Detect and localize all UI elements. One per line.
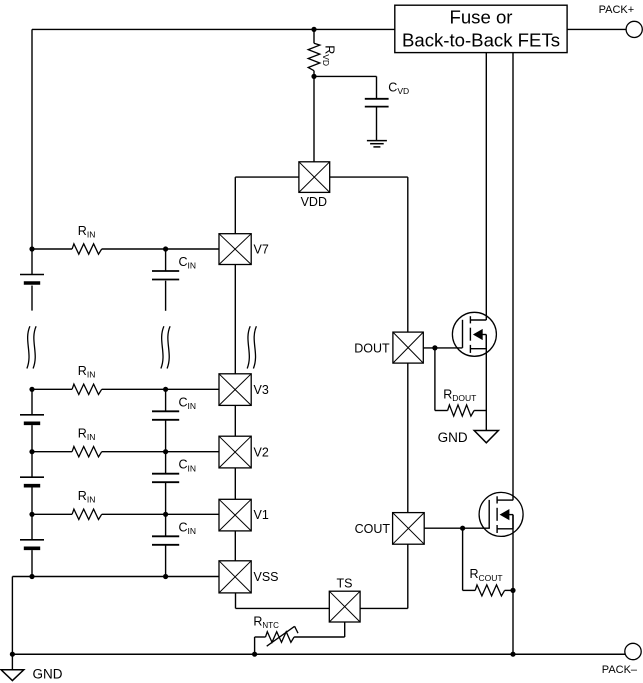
svg-text:V2: V2: [254, 445, 269, 459]
resistor RVD: [308, 29, 320, 76]
thermistor RNTC: [255, 626, 298, 646]
svg-text:DOUT: DOUT: [354, 341, 390, 355]
op-pin V2: [219, 436, 251, 468]
junction: DOUT gate node: [432, 345, 437, 350]
wire: DOUT to Q1 gate: [423, 347, 462, 349]
resistor RIN (V7 row): [32, 244, 219, 254]
transistor Q1 (discharge FET): [452, 312, 496, 356]
capacitor CIN (V7 row): [152, 249, 179, 280]
svg-text:VDD: VDD: [301, 195, 327, 209]
wire: CIN V3 to V2: [165, 420, 167, 452]
wire: RNTC to rail: [254, 637, 256, 654]
resistor RDOUT: [435, 348, 486, 416]
wire: Q2 source to PACK- rail: [512, 515, 514, 655]
ground symbol GND (left): [1, 654, 24, 680]
ground symbol GND (Q1 source): [474, 431, 498, 443]
resistor RIN (V2 row): [32, 447, 219, 457]
break mark: battery bus: [27, 326, 36, 368]
capacitor CVD: [365, 99, 389, 140]
wire: CIN V2 to V1: [165, 482, 167, 514]
break mark: CIN bus: [161, 326, 170, 368]
battery cell (V2): [20, 452, 44, 486]
wire: battery top stub: [31, 286, 33, 311]
op-pin V7: [219, 234, 251, 265]
junction: CIN bus V7: [163, 246, 168, 251]
junction: RCOUT source node: [510, 588, 515, 593]
junction: CIN bus VSS: [163, 574, 168, 579]
battery cell (V1): [20, 514, 44, 548]
junction: battery bus V1: [29, 512, 34, 517]
fuse/FET block: [395, 5, 567, 52]
svg-text:V3: V3: [254, 383, 269, 397]
junction: RVD bottom / CVD node: [311, 74, 316, 79]
svg-text:Fuse or: Fuse or: [449, 7, 512, 28]
svg-text:TS: TS: [337, 577, 353, 591]
op-pin COUT: [393, 513, 425, 545]
wire: fuse block to PACK+ terminal: [567, 28, 626, 30]
battery cell (top): [20, 249, 44, 283]
junction: COUT gate node: [460, 526, 465, 531]
resistor RCOUT: [463, 528, 513, 596]
junction: Q2 source rail: [510, 652, 515, 657]
capacitor CIN (V2 row): [152, 452, 179, 483]
wire: left stack bus top: [31, 29, 33, 249]
wire: VDD to V7 column: [235, 177, 299, 234]
wire: V3-V2 link: [234, 405, 236, 436]
junction: battery bus VSS: [29, 574, 34, 579]
junction: battery bus V7: [29, 246, 34, 251]
wire: RVD to VDD pin: [313, 76, 315, 161]
wire: CIN V7 bottom stub: [165, 281, 167, 311]
svg-text:Back-to-Back FETs: Back-to-Back FETs: [402, 30, 560, 51]
wire: DOUT column link: [407, 363, 409, 512]
op-pin V3: [219, 374, 251, 406]
op-pin VDD: [299, 162, 330, 193]
svg-text:COUT: COUT: [355, 522, 391, 536]
op-pin DOUT: [393, 332, 423, 363]
wire: node to CVD: [314, 76, 377, 98]
wire: [31, 488, 33, 515]
junction: RVD top: [311, 27, 316, 32]
junction: RNTC rail: [252, 652, 257, 657]
wire: [31, 425, 33, 452]
op-pin V1: [219, 499, 251, 531]
wire: V7 to V3 column link: [234, 265, 236, 374]
battery cell (V3): [20, 389, 44, 423]
wire: Q1 source to GND: [485, 335, 487, 431]
wire: COUT to Q2 gate: [424, 527, 490, 529]
wire: TS bottom to RNTC: [294, 622, 345, 637]
op-pin TS: [329, 591, 360, 622]
wire: PACK+ rail (top): [32, 28, 395, 30]
wire: V1-VSS link: [234, 531, 236, 561]
junction: battery bus V3: [29, 387, 34, 392]
wire: VSS rail: [12, 577, 219, 655]
junction: battery bus V2: [29, 449, 34, 454]
wire: fuse block to Q2 drain: [512, 53, 514, 501]
svg-text:V7: V7: [254, 243, 269, 257]
transistor Q2 (charge FET): [479, 492, 523, 536]
wire: VDD to DOUT column: [330, 177, 408, 332]
svg-text:PACK–: PACK–: [602, 664, 638, 676]
wire: TS to COUT column: [360, 544, 408, 608]
wire: CIN V1 to VSS: [165, 545, 167, 577]
wire: [31, 550, 33, 576]
wire: V2-V1 link: [234, 468, 236, 499]
wire: VSS pin to TS pin: [236, 593, 330, 609]
capacitor CIN (V1 row): [152, 514, 179, 545]
terminal PACK-: [625, 643, 641, 659]
svg-text:PACK+: PACK+: [599, 4, 635, 16]
svg-text:VSS: VSS: [254, 570, 279, 584]
junction: CIN bus V3: [163, 387, 168, 392]
resistor RIN (V1 row): [32, 509, 219, 519]
ground symbol (CVD): [367, 141, 387, 147]
junction: CIN bus V2: [163, 449, 168, 454]
wire: PACK- rail (bottom): [12, 653, 625, 655]
svg-text:GND: GND: [33, 666, 63, 681]
junction: CIN bus V1: [163, 512, 168, 517]
capacitor CIN (V3 row): [152, 389, 179, 420]
svg-text:GND: GND: [438, 430, 468, 445]
terminal PACK+: [626, 21, 642, 37]
resistor RIN (V3 row): [32, 384, 219, 394]
svg-text:V1: V1: [254, 508, 269, 522]
op-pin VSS: [219, 561, 251, 593]
break mark: pin column: [247, 326, 256, 368]
wire: fuse block to Q1 drain: [485, 53, 487, 320]
junction: GND tap: [10, 652, 15, 657]
